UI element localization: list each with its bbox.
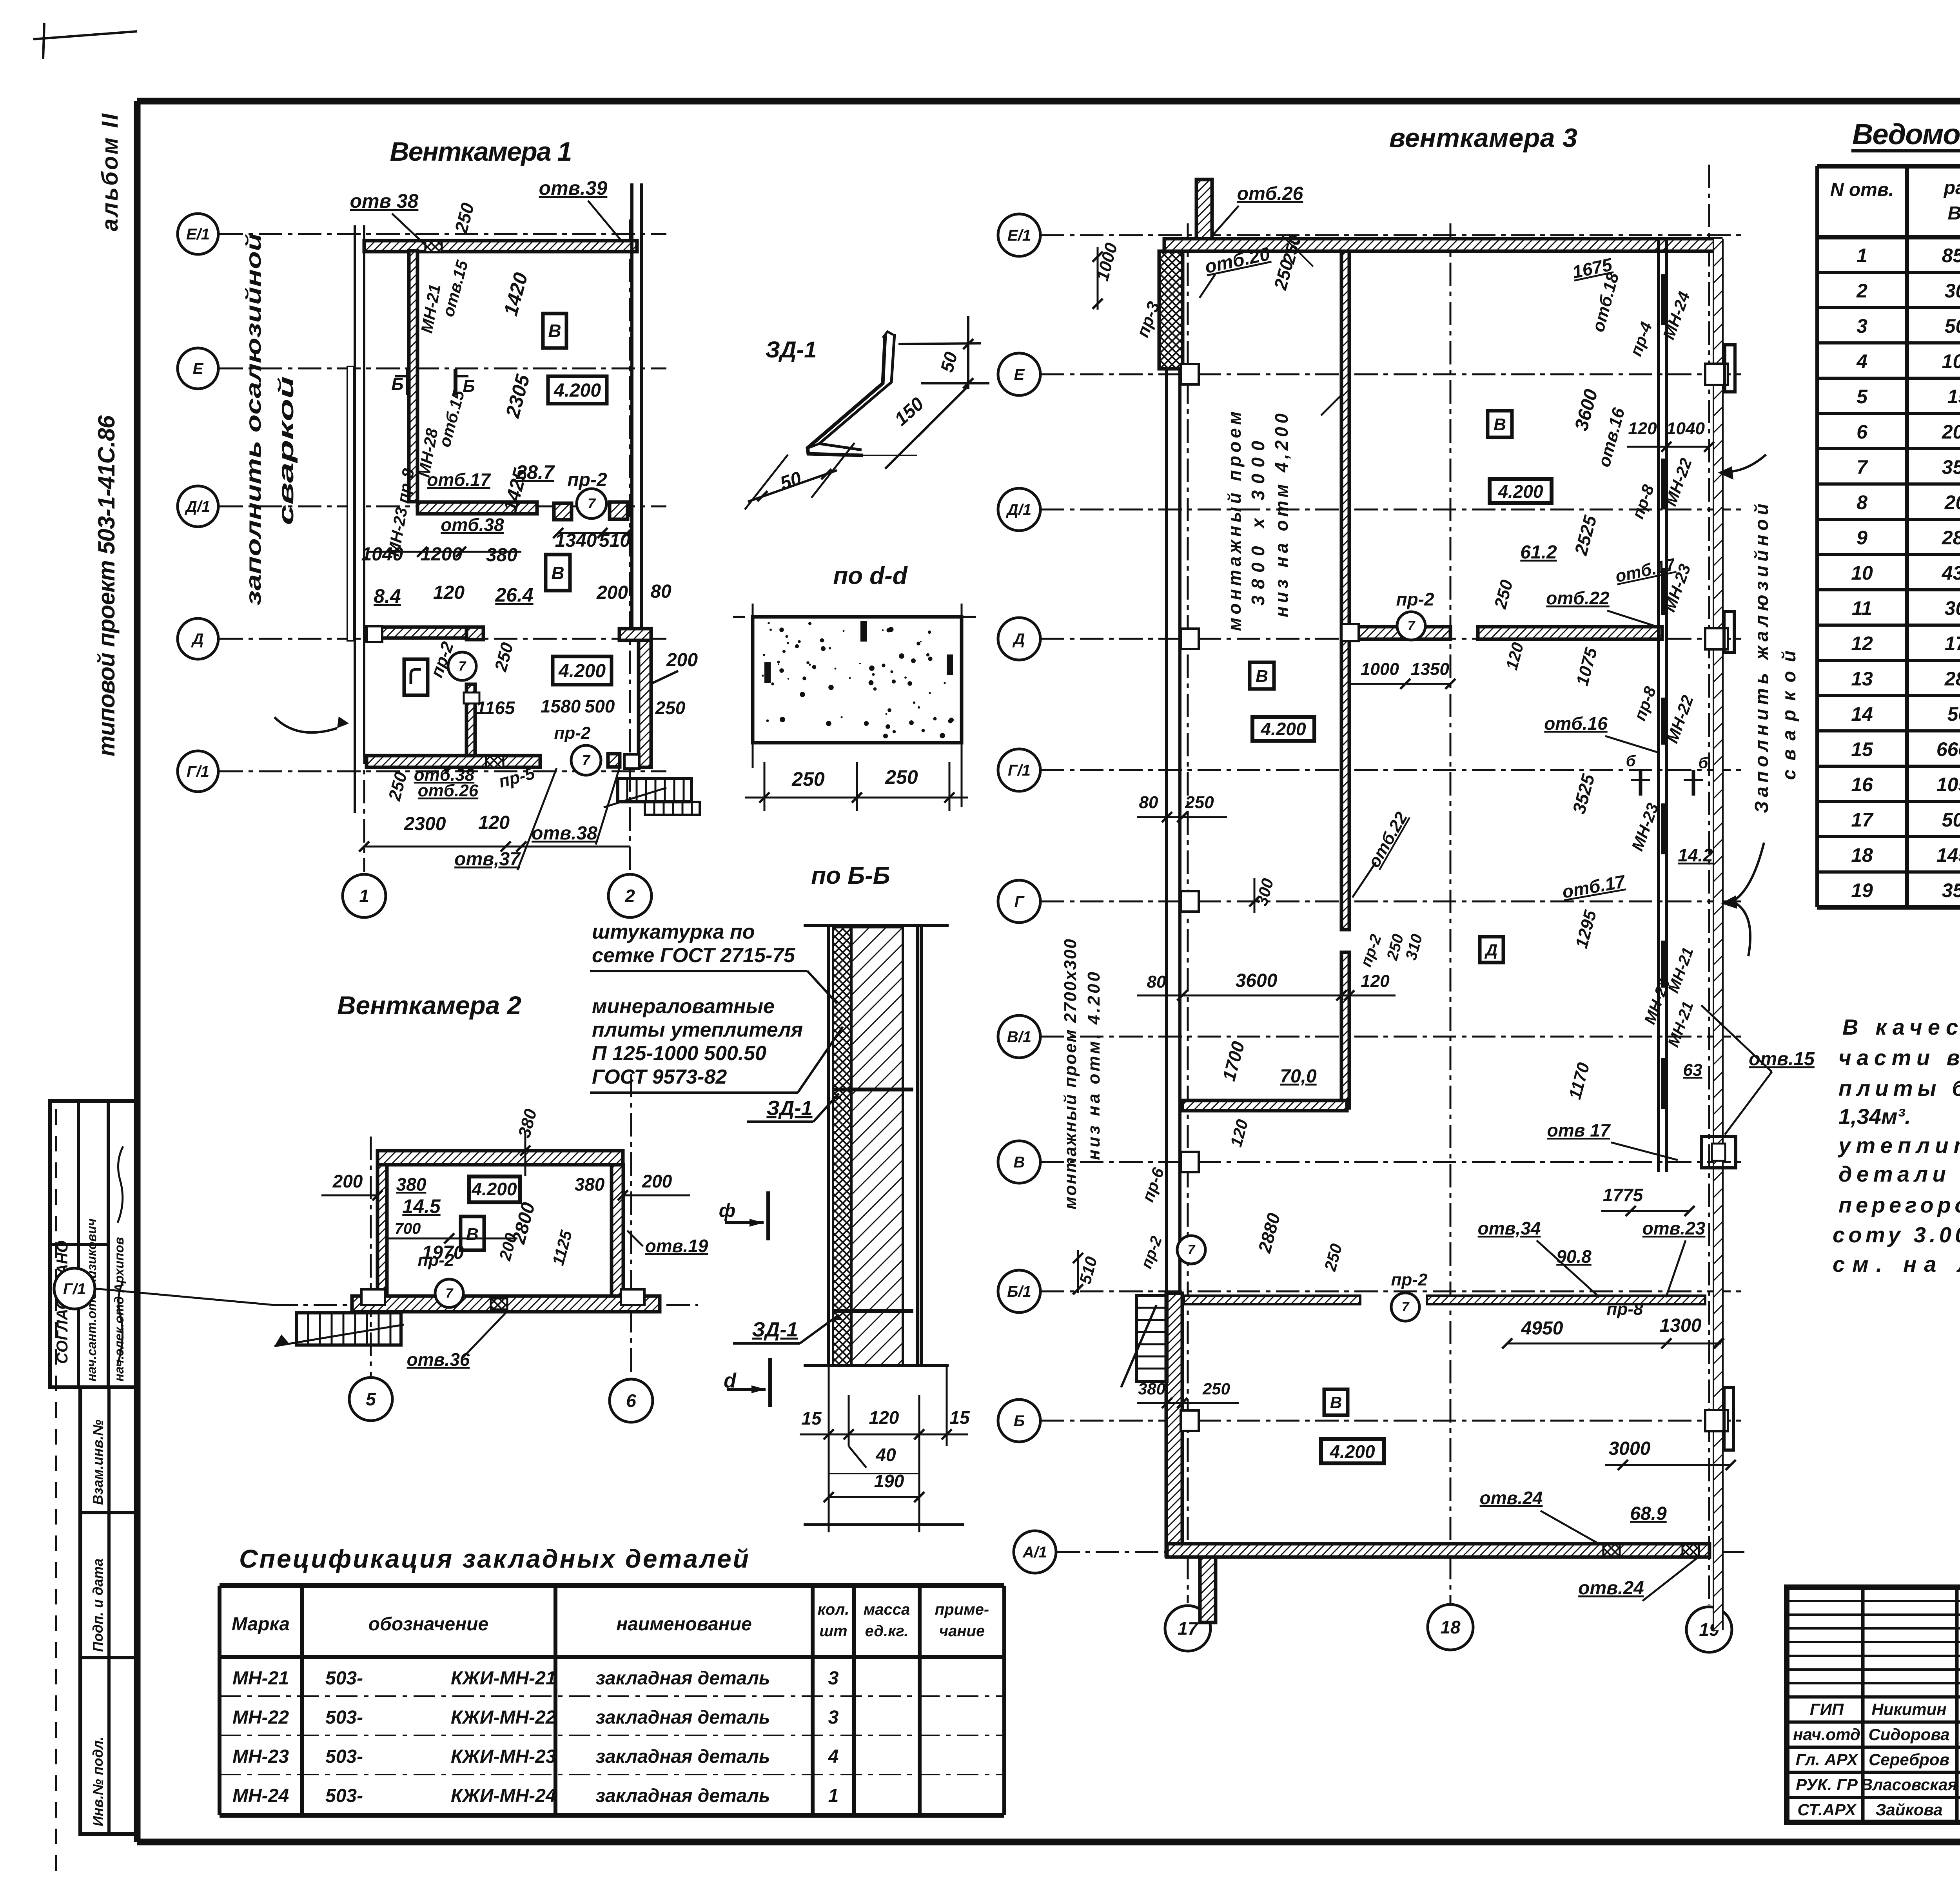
svg-text:2300: 2300 xyxy=(404,814,446,834)
svg-text:МН-24: МН-24 xyxy=(232,1786,289,1806)
B-B bottom dims xyxy=(828,1365,830,1446)
svg-text:масса: масса xyxy=(864,1601,910,1618)
svg-text:1580: 1580 xyxy=(541,696,581,716)
svg-text:Б/1: Б/1 xyxy=(1007,1283,1031,1300)
svg-text:Д: Д xyxy=(1013,631,1025,648)
axis circle В xyxy=(998,1141,1040,1183)
svg-text:6: 6 xyxy=(1857,421,1868,443)
svg-text:нач.отд: нач.отд xyxy=(1793,1725,1860,1744)
svg-text:Г/1: Г/1 xyxy=(63,1280,86,1298)
svg-text:В/1: В/1 xyxy=(1007,1028,1031,1046)
svg-text:250: 250 xyxy=(655,698,686,718)
svg-text:низ на отм. 4.200: низ на отм. 4.200 xyxy=(1084,972,1103,1160)
svg-text:70,0: 70,0 xyxy=(1280,1066,1317,1087)
B box vk1 top xyxy=(543,314,566,348)
axis circle 6 xyxy=(610,1379,653,1422)
paper edge marks xyxy=(33,31,137,39)
svg-text:КЖИ-МН-23: КЖИ-МН-23 xyxy=(451,1746,556,1767)
svg-text:штукатурка по: штукатурка по xyxy=(592,921,755,943)
svg-text:Д: Д xyxy=(191,631,204,648)
vk3 walls xyxy=(1164,239,1721,251)
svg-text:7: 7 xyxy=(1188,1242,1196,1257)
svg-text:низ на отм 4,200: низ на отм 4,200 xyxy=(1271,413,1292,617)
circle 7 at D wall xyxy=(1397,612,1425,640)
vk1 walls xyxy=(354,225,356,813)
svg-text:505х1255: 505х1255 xyxy=(1942,809,1960,831)
D box vk3 xyxy=(1480,937,1503,963)
svg-text:Ведомость отверстий: Ведомость отверстий xyxy=(1852,118,1960,150)
axis circle 2 xyxy=(608,874,652,917)
svg-text:Взам.инв.№: Взам.инв.№ xyxy=(90,1419,106,1505)
wall layers xyxy=(827,926,830,1365)
svg-text:ВхН, мм: ВхН, мм xyxy=(1947,203,1960,224)
svg-text:шт: шт xyxy=(819,1622,847,1640)
svg-text:отв,34: отв,34 xyxy=(1478,1218,1541,1238)
vk2 stairs xyxy=(296,1313,401,1345)
4.200 box vk3 mid xyxy=(1252,717,1314,741)
ZD-1 angle bracket xyxy=(808,335,885,455)
svg-text:отб.26: отб.26 xyxy=(1237,183,1303,204)
svg-text:8: 8 xyxy=(1857,491,1867,513)
axis circle Б/1 xyxy=(998,1270,1040,1312)
B box vk3 mid xyxy=(1250,662,1274,689)
svg-text:В: В xyxy=(1014,1154,1025,1171)
svg-text:7: 7 xyxy=(582,752,591,768)
svg-text:2: 2 xyxy=(624,886,635,906)
svg-text:закладная деталь: закладная деталь xyxy=(596,1786,770,1806)
svg-text:Инв.№ подл.: Инв.№ подл. xyxy=(90,1737,106,1826)
svg-text:17: 17 xyxy=(1178,1618,1199,1639)
svg-text:Б: Б xyxy=(391,375,403,394)
svg-text:Г/1: Г/1 xyxy=(187,763,209,780)
svg-text:венткамера 3: венткамера 3 xyxy=(1389,123,1577,153)
svg-text:отб.16: отб.16 xyxy=(1544,713,1608,734)
vk1 dim lines xyxy=(368,551,521,553)
svg-text:кол.: кол. xyxy=(818,1601,849,1618)
svg-text:850 х 500: 850 х 500 xyxy=(1942,245,1960,266)
svg-text:150х150: 150х150 xyxy=(1947,386,1960,408)
svg-text:4.200: 4.200 xyxy=(1329,1441,1375,1462)
svg-text:3600: 3600 xyxy=(1236,970,1278,991)
svg-text:отв.24: отв.24 xyxy=(1578,1578,1644,1599)
vk3 axis lines xyxy=(1041,234,1744,236)
svg-text:В: В xyxy=(1256,667,1268,686)
svg-text:120: 120 xyxy=(478,812,510,833)
soglasovano table xyxy=(50,1101,137,1387)
svg-text:7: 7 xyxy=(588,495,596,511)
svg-text:Е: Е xyxy=(1014,366,1025,383)
svg-text:380: 380 xyxy=(575,1174,605,1195)
svg-text:Сидорова: Сидорова xyxy=(1868,1725,1949,1744)
svg-text:4950: 4950 xyxy=(1521,1318,1563,1339)
svg-text:по Б-Б: по Б-Б xyxy=(811,862,890,889)
svg-text:1: 1 xyxy=(1857,245,1867,266)
vk2 walls xyxy=(377,1151,623,1165)
circle 7 bottom opening xyxy=(571,745,601,775)
svg-text:ГИП: ГИП xyxy=(1810,1700,1844,1719)
vedomost table grid xyxy=(1817,164,1960,169)
svg-text:Б: Б xyxy=(1014,1412,1025,1430)
svg-text:4.200: 4.200 xyxy=(554,380,601,401)
svg-text:280х 280: 280х 280 xyxy=(1944,668,1960,690)
svg-text:закладная деталь: закладная деталь xyxy=(596,1668,770,1689)
svg-text:40: 40 xyxy=(875,1445,896,1465)
axis circle Г/1 xyxy=(998,749,1040,791)
svg-text:200: 200 xyxy=(642,1171,672,1191)
svg-text:монтажный проем 2700х300: монтажный проем 2700х300 xyxy=(1061,939,1080,1209)
svg-text:КЖИ-МН-21: КЖИ-МН-21 xyxy=(451,1668,556,1689)
svg-text:минераловатные: минераловатные xyxy=(592,995,775,1018)
svg-text:68.9: 68.9 xyxy=(1630,1503,1667,1524)
svg-text:120: 120 xyxy=(869,1407,899,1428)
svg-text:380: 380 xyxy=(486,545,517,566)
svg-text:МН-23: МН-23 xyxy=(232,1746,289,1767)
svg-text:Венткамера 1: Венткамера 1 xyxy=(390,137,572,167)
svg-text:Никитин: Никитин xyxy=(1871,1700,1946,1719)
svg-text:А/1: А/1 xyxy=(1022,1544,1047,1561)
vk1 axis lines xyxy=(220,233,666,235)
svg-text:КЖИ-МН-22: КЖИ-МН-22 xyxy=(451,1707,556,1728)
svg-text:отв 17: отв 17 xyxy=(1547,1120,1611,1140)
svg-text:11: 11 xyxy=(1852,597,1872,619)
svg-text:4: 4 xyxy=(1856,350,1867,372)
4.200 box vk3 bottom xyxy=(1321,1439,1384,1463)
svg-text:14.5: 14.5 xyxy=(402,1195,441,1217)
svg-text:МН-22: МН-22 xyxy=(232,1707,289,1728)
svg-text:пр-2: пр-2 xyxy=(1396,589,1434,609)
svg-text:15: 15 xyxy=(949,1407,970,1428)
svg-text:500: 500 xyxy=(585,696,615,716)
section b marks xyxy=(1639,770,1642,796)
svg-text:120: 120 xyxy=(1361,972,1390,991)
4.200 box vk1 lower xyxy=(553,656,612,685)
svg-text:заполнить осалюзийной: заполнить осалюзийной xyxy=(242,233,265,605)
svg-text:пр-2: пр-2 xyxy=(418,1251,454,1270)
svg-text:7: 7 xyxy=(1408,618,1416,633)
svg-text:Серебров: Серебров xyxy=(1869,1750,1949,1769)
svg-text:Д/1: Д/1 xyxy=(1006,501,1031,518)
svg-text:1775: 1775 xyxy=(1603,1185,1644,1205)
axis circle 5 xyxy=(349,1378,392,1421)
svg-text:утеплитель крепится к ст: утеплитель крепится к стенам с помощью xyxy=(1837,1133,1960,1158)
svg-text:закладная деталь: закладная деталь xyxy=(596,1746,770,1767)
svg-text:17: 17 xyxy=(1851,809,1874,831)
svg-text:120: 120 xyxy=(433,582,465,603)
svg-text:В: В xyxy=(548,321,561,341)
svg-text:7: 7 xyxy=(446,1286,454,1301)
svg-text:28.7: 28.7 xyxy=(515,461,555,483)
svg-text:ф: ф xyxy=(719,1200,735,1221)
svg-text:90.8: 90.8 xyxy=(1556,1246,1592,1267)
svg-text:отв.39: отв.39 xyxy=(539,177,608,199)
svg-text:N отв.: N отв. xyxy=(1830,179,1894,200)
svg-text:Д: Д xyxy=(1485,941,1497,959)
svg-text:380: 380 xyxy=(396,1174,426,1195)
svg-text:d: d xyxy=(724,1369,737,1392)
svg-text:200 х 200: 200 х 200 xyxy=(1942,421,1960,443)
svg-text:Е: Е xyxy=(193,360,204,377)
svg-text:приме-: приме- xyxy=(935,1601,989,1618)
circle 7 at B/1 wall xyxy=(1391,1293,1419,1321)
svg-text:503-: 503- xyxy=(325,1668,363,1689)
svg-text:отв.19: отв.19 xyxy=(645,1236,708,1256)
svg-text:5: 5 xyxy=(366,1389,376,1409)
svg-text:Венткамера 2: Венткамера 2 xyxy=(337,991,521,1020)
vk1 stairs xyxy=(618,778,691,802)
svg-text:7: 7 xyxy=(1402,1300,1410,1314)
G box vk1 xyxy=(404,659,428,695)
svg-text:пр-2: пр-2 xyxy=(1391,1270,1428,1289)
svg-text:18: 18 xyxy=(1440,1617,1461,1637)
svg-text:200: 200 xyxy=(596,582,628,603)
4.200 box vk1 upper xyxy=(548,376,607,404)
svg-text:500х350: 500х350 xyxy=(1947,703,1960,725)
axis circle Е/1 xyxy=(998,214,1040,256)
vk2 vertical axes xyxy=(370,1137,372,1376)
circle 7 at B/1 wall left xyxy=(1177,1236,1205,1264)
axis circle A/1 xyxy=(1014,1531,1056,1573)
svg-text:отв,37: отв,37 xyxy=(454,849,521,870)
svg-text:280 х 280: 280 х 280 xyxy=(1942,527,1960,549)
axis circle Д/1 xyxy=(178,486,218,527)
axis circle Е/1 xyxy=(178,214,218,254)
svg-text:пр-2: пр-2 xyxy=(554,723,591,743)
svg-text:250: 250 xyxy=(1185,793,1214,812)
B box vk3 upper xyxy=(1488,411,1512,437)
svg-text:1450х1923: 1450х1923 xyxy=(1936,844,1960,866)
svg-text:пр-2: пр-2 xyxy=(567,470,607,490)
svg-text:3: 3 xyxy=(828,1668,839,1689)
svg-text:61.2: 61.2 xyxy=(1520,542,1557,563)
anchor details xyxy=(833,1088,913,1091)
svg-text:1050х1553: 1050х1553 xyxy=(1936,774,1960,796)
svg-text:660 х 1050: 660 х 1050 xyxy=(1936,738,1960,760)
svg-text:Е/1: Е/1 xyxy=(186,226,210,243)
dd dims xyxy=(764,762,766,811)
svg-text:обозначение: обозначение xyxy=(368,1614,488,1635)
otv cross markers vk1 xyxy=(425,241,442,252)
svg-text:1350: 1350 xyxy=(1411,660,1449,679)
svg-text:3000: 3000 xyxy=(1609,1438,1651,1459)
section B cut marks vk1 xyxy=(406,369,410,395)
svg-text:190: 190 xyxy=(874,1471,904,1491)
svg-text:Г/1: Г/1 xyxy=(1008,762,1031,779)
vk3 vertical axes xyxy=(1187,223,1189,1603)
svg-text:В: В xyxy=(466,1225,479,1244)
svg-text:15: 15 xyxy=(801,1408,822,1428)
svg-text:монтажный проем: монтажный проем xyxy=(1224,412,1245,631)
svg-text:Подп. и дата: Подп. и дата xyxy=(90,1559,106,1652)
svg-text:отв.38: отв.38 xyxy=(532,823,597,844)
svg-text:МН-21: МН-21 xyxy=(232,1668,289,1689)
axis circle Е xyxy=(178,348,218,389)
svg-text:Спецификация закладных деталей: Спецификация закладных деталей xyxy=(239,1544,749,1573)
svg-text:250: 250 xyxy=(1202,1380,1230,1398)
4.200 box vk3 upper xyxy=(1490,479,1552,503)
svg-text:12: 12 xyxy=(1851,633,1873,654)
svg-text:1: 1 xyxy=(828,1786,839,1806)
vk1 vertical axes xyxy=(363,231,365,872)
svg-text:отб.38: отб.38 xyxy=(441,515,504,535)
svg-text:200 х200: 200 х200 xyxy=(1944,491,1960,513)
svg-text:отб.17: отб.17 xyxy=(427,470,491,490)
svg-text:Д/1: Д/1 xyxy=(185,498,210,515)
svg-text:80: 80 xyxy=(1139,793,1158,812)
svg-text:Зайкова: Зайкова xyxy=(1875,1800,1942,1819)
svg-text:250: 250 xyxy=(791,768,825,790)
axis circle G/1 vk2 xyxy=(54,1268,95,1309)
svg-text:1300: 1300 xyxy=(1660,1315,1702,1336)
svg-text:120: 120 xyxy=(1628,419,1657,438)
svg-text:2: 2 xyxy=(1856,280,1867,302)
svg-text:соту 3.000м подшивной пот: соту 3.000м подшивной потолок на отм. 7,… xyxy=(1833,1222,1960,1247)
svg-text:300 х300: 300 х300 xyxy=(1945,280,1960,302)
axis circle Е xyxy=(998,353,1040,395)
svg-text:В: В xyxy=(551,563,564,583)
svg-text:10: 10 xyxy=(1851,562,1873,584)
svg-text:1000: 1000 xyxy=(1361,660,1399,679)
svg-text:отб.26: отб.26 xyxy=(418,781,479,800)
otv markers in bottom wall xyxy=(1603,1545,1620,1556)
svg-text:сваркой: сваркой xyxy=(274,376,298,525)
axis circle 17 xyxy=(1165,1606,1210,1651)
svg-text:Е/1: Е/1 xyxy=(1007,227,1031,244)
svg-text:1: 1 xyxy=(359,886,369,906)
svg-text:пр-8: пр-8 xyxy=(1607,1300,1643,1319)
svg-text:1040: 1040 xyxy=(1666,419,1705,438)
axis circle Г xyxy=(998,880,1040,923)
title block xyxy=(1787,1587,1960,1822)
svg-text:отв.24: отв.24 xyxy=(1480,1488,1543,1508)
svg-text:отв.36: отв.36 xyxy=(407,1349,470,1370)
B box vk1 upper xyxy=(546,555,570,591)
spec table grid xyxy=(218,1586,221,1815)
svg-text:350 х 350: 350 х 350 xyxy=(1942,879,1960,901)
svg-text:П 125-1000 500.50: П 125-1000 500.50 xyxy=(592,1042,766,1065)
svg-text:Гл. АРХ: Гл. АРХ xyxy=(1796,1750,1859,1769)
svg-text:8.4: 8.4 xyxy=(374,585,401,607)
svg-text:плиты утеплителя: плиты утеплителя xyxy=(592,1019,803,1041)
svg-text:4: 4 xyxy=(828,1746,839,1767)
svg-text:размеры: размеры xyxy=(1943,178,1960,198)
ZD-1 dims xyxy=(898,343,981,344)
stamp column xyxy=(80,1387,137,1834)
svg-text:19: 19 xyxy=(1851,879,1873,901)
svg-text:РУК. ГР: РУК. ГР xyxy=(1796,1775,1858,1794)
svg-text:наименование: наименование xyxy=(616,1614,752,1635)
svg-text:3800 х 3000: 3800 х 3000 xyxy=(1248,441,1268,605)
d section marks xyxy=(766,1191,770,1240)
axis circle Г/1 xyxy=(178,751,218,792)
vk2 dim lines xyxy=(321,1195,376,1196)
vk3 stairs at B/1 xyxy=(1136,1296,1167,1381)
concrete slab xyxy=(753,617,962,743)
svg-text:503-: 503- xyxy=(325,1746,363,1767)
svg-text:отв.23: отв.23 xyxy=(1642,1218,1706,1238)
svg-text:503-: 503- xyxy=(325,1707,363,1728)
axis circle В/1 xyxy=(998,1015,1040,1058)
svg-text:4.200: 4.200 xyxy=(1260,719,1306,739)
svg-text:отв 38: отв 38 xyxy=(350,190,419,212)
svg-text:430 х 430: 430 х 430 xyxy=(1942,562,1960,584)
svg-text:4.200: 4.200 xyxy=(471,1179,517,1199)
svg-text:18: 18 xyxy=(1851,844,1873,866)
svg-text:16: 16 xyxy=(1851,774,1873,796)
svg-text:7: 7 xyxy=(459,659,467,674)
svg-text:детали ЗД-1.: детали ЗД-1. xyxy=(1838,1162,1960,1186)
svg-text:350 х 300: 350 х 300 xyxy=(1942,456,1960,478)
svg-text:4.200: 4.200 xyxy=(1497,481,1543,502)
B box vk3 bottom xyxy=(1324,1389,1348,1415)
axis circle 19 xyxy=(1686,1607,1732,1652)
svg-text:закладная деталь: закладная деталь xyxy=(596,1707,770,1728)
svg-text:15: 15 xyxy=(1851,738,1873,760)
sheet frame xyxy=(137,98,1960,105)
svg-text:СТ.АРХ: СТ.АРХ xyxy=(1797,1800,1857,1819)
svg-text:б: б xyxy=(1699,754,1709,772)
svg-text:Власовская: Власовская xyxy=(1861,1775,1957,1794)
svg-text:4.200: 4.200 xyxy=(558,661,606,682)
svg-text:200: 200 xyxy=(666,650,698,671)
svg-text:сетке ГОСТ 2715-75: сетке ГОСТ 2715-75 xyxy=(592,944,795,967)
vk2 axis G/1 xyxy=(274,1304,698,1306)
svg-text:1,34м³.: 1,34м³. xyxy=(1838,1104,1911,1129)
svg-text:Г: Г xyxy=(1014,893,1025,910)
svg-text:ГОСТ 9573-82: ГОСТ 9573-82 xyxy=(592,1066,727,1088)
svg-text:альбом II: альбом II xyxy=(97,113,123,231)
svg-text:3: 3 xyxy=(828,1707,839,1728)
svg-text:6: 6 xyxy=(626,1390,636,1411)
svg-text:КЖИ-МН-24: КЖИ-МН-24 xyxy=(451,1786,556,1806)
svg-text:плиты б=40мм п-125. 1000.: плиты б=40мм п-125. 1000. 500.50 ГОСТ 95… xyxy=(1838,1076,1960,1100)
svg-text:700: 700 xyxy=(395,1220,421,1237)
axis circle 1 xyxy=(343,874,386,917)
svg-text:типовой проект 503-1-41С.86: типовой проект 503-1-41С.86 xyxy=(93,415,120,756)
svg-text:100 х 100: 100 х 100 xyxy=(1942,350,1960,372)
svg-text:13: 13 xyxy=(1851,668,1873,690)
axis circle 18 xyxy=(1428,1604,1473,1650)
svg-text:перегородки толщиной 120: перегородки толщиной 120мм с отм. 4.200 … xyxy=(1838,1193,1960,1217)
signature grid xyxy=(1861,1587,1865,1822)
svg-text:5: 5 xyxy=(1857,386,1868,408)
svg-text:1040: 1040 xyxy=(361,544,403,565)
svg-text:ЗД-1: ЗД-1 xyxy=(766,1097,812,1120)
svg-text:ЗД-1: ЗД-1 xyxy=(766,337,817,363)
svg-text:14.2: 14.2 xyxy=(1678,845,1713,865)
svg-text:300 х300: 300 х300 xyxy=(1945,597,1960,619)
svg-text:б: б xyxy=(1626,752,1636,770)
svg-text:14: 14 xyxy=(1851,703,1873,725)
svg-text:380: 380 xyxy=(1138,1380,1165,1398)
svg-text:503-: 503- xyxy=(325,1786,363,1806)
svg-text:178 х172: 178 х172 xyxy=(1945,633,1960,654)
circle 7 opening xyxy=(577,489,606,518)
svg-text:В: В xyxy=(1494,415,1506,434)
svg-text:3: 3 xyxy=(1857,315,1867,337)
svg-text:500х 500: 500х 500 xyxy=(1945,315,1960,337)
axis circle Д xyxy=(178,618,218,659)
svg-text:26.4: 26.4 xyxy=(495,584,533,606)
svg-text:ед.кг.: ед.кг. xyxy=(865,1622,909,1640)
axis circle Д/1 xyxy=(998,488,1040,531)
svg-text:чание: чание xyxy=(939,1622,985,1640)
svg-text:9: 9 xyxy=(1857,527,1867,549)
axis circle Б xyxy=(998,1399,1040,1442)
svg-text:250: 250 xyxy=(885,766,918,788)
vk2 labels xyxy=(469,1177,520,1202)
svg-text:В: В xyxy=(1330,1393,1342,1412)
svg-text:80: 80 xyxy=(1147,972,1166,992)
